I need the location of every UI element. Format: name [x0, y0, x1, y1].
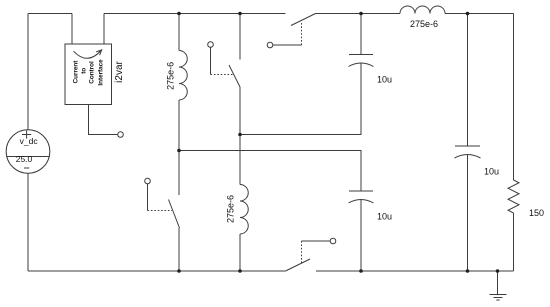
node junction top rail S2 [238, 12, 242, 16]
wire top rail after switch S3 [316, 13, 401, 15]
capacitor C2 10u [349, 191, 393, 222]
switch S4 gate terminal [330, 238, 336, 244]
capacitor C3 10u [455, 146, 500, 177]
wire top rail middle segment [104, 13, 286, 15]
wire ground stem [497, 271, 499, 294]
wire top rail right of inductor L3 [445, 13, 514, 15]
node junction bottom rail S1 [177, 269, 181, 273]
wire capacitor C3 bottom to rail [467, 155, 469, 271]
svg-text:10u: 10u [377, 212, 392, 222]
wire inductor L1 to switch S1 [178, 100, 180, 195]
wire switch S2 gate lead [210, 47, 212, 74]
svg-text:Interface: Interface [98, 59, 105, 86]
svg-text:v_dc: v_dc [20, 136, 39, 146]
svg-text:275e-6: 275e-6 [226, 195, 236, 223]
wire switch S2 gate dashed link [211, 74, 234, 76]
svg-text:25.0: 25.0 [16, 154, 33, 164]
switch S2 blade [229, 65, 240, 87]
switch S3 blade [291, 14, 316, 26]
wire right edge lower (resistor to bottom rail) [513, 213, 515, 271]
wire rail to capacitor C3 [467, 14, 469, 147]
wire left edge bottom (source - to bottom rail) [27, 174, 29, 272]
wire rail to inductor L1 [178, 14, 180, 51]
node block output terminal [118, 132, 124, 138]
svg-text:275e-6: 275e-6 [166, 62, 176, 90]
wire switch S3 gate dashed link [301, 23, 303, 46]
svg-text:10u: 10u [484, 167, 499, 177]
wire block left pin drop [71, 14, 73, 45]
switch S2 gate terminal [208, 42, 214, 48]
wire block right pin drop [103, 14, 105, 45]
wire rail to switch S2 [239, 14, 241, 60]
wire switch S1 gate dashed link [148, 210, 173, 212]
wire left edge top (rail to source +) [27, 14, 29, 131]
svg-text:150: 150 [529, 208, 544, 218]
node junction top rail L1 [177, 12, 181, 16]
wire right edge upper [513, 14, 515, 181]
switch S3 gate terminal [267, 42, 273, 48]
svg-text:to: to [80, 68, 87, 74]
node junction top rail C3 [466, 12, 470, 16]
wire rail to capacitor C1 [360, 14, 362, 55]
node B junction [238, 133, 242, 137]
node junction top rail C1 [359, 12, 363, 16]
wire capacitor C1 bottom to node B [240, 63, 361, 134]
node junction bottom rail C2 [359, 269, 363, 273]
wire switch S1 gate lead [147, 184, 149, 211]
wire bottom rail left segment [28, 270, 286, 272]
wire top rail left segment [28, 13, 72, 15]
wire switch S2 to inductor L2 [239, 87, 241, 185]
node A junction [177, 149, 181, 153]
op-amp U1 current-to-control interface block i2var [65, 44, 125, 105]
node junction bottom rail L2 [238, 269, 242, 273]
wire capacitor C2 bottom to rail [360, 200, 362, 271]
resistor R1 150 [508, 180, 544, 218]
svg-text:i2var: i2var [114, 60, 125, 82]
wire switch S3 gate lead [273, 44, 302, 46]
capacitor C1 10u [349, 55, 393, 85]
voltage source V1 v_dc 25.0 [6, 130, 50, 174]
svg-text:10u: 10u [377, 75, 392, 85]
wire inductor L2 to bottom rail [239, 234, 241, 271]
ground [490, 295, 507, 301]
inductor L2 275e-6 [226, 185, 249, 235]
inductor L3 275e-6 [400, 6, 445, 29]
wire block output pin to terminal [89, 105, 118, 135]
wire switch S4 gate lead [302, 240, 331, 242]
svg-text:Current: Current [72, 60, 79, 84]
switch S4 blade [286, 259, 311, 271]
switch S1 gate terminal [145, 178, 151, 184]
wire node A to capacitor C2 top [179, 151, 361, 192]
wire switch S4 gate dashed link [301, 241, 303, 264]
wire switch S1 to bottom rail [178, 228, 180, 271]
inductor L1 275e-6 [166, 51, 188, 101]
switch S1 blade [169, 200, 180, 229]
node junction bottom rail ground [496, 269, 500, 273]
svg-text:275e-6: 275e-6 [410, 19, 438, 29]
wire bottom rail right segment [316, 270, 514, 272]
svg-text:Control: Control [88, 61, 95, 84]
node junction bottom rail C3 [466, 269, 470, 273]
